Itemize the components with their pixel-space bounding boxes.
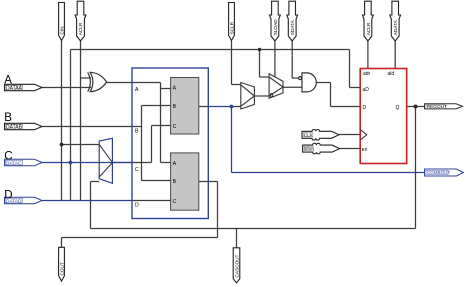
svg-text:ADATA: ADATA <box>393 19 398 35</box>
svg-text:adr: adr <box>363 71 371 77</box>
svg-text:COUT: COUT <box>59 262 64 275</box>
svg-text:C: C <box>173 199 177 205</box>
svg-text:D: D <box>135 203 139 209</box>
svg-text:ald: ald <box>388 71 395 77</box>
svg-text:ENA: ENA <box>304 146 313 151</box>
svg-text:SCLR: SCLR <box>229 21 234 34</box>
svg-text:C: C <box>173 124 177 130</box>
svg-text:CASCOUT: CASCOUT <box>234 254 239 277</box>
svg-text:en: en <box>362 147 368 153</box>
svg-text:A: A <box>173 161 177 167</box>
svg-text:D: D <box>363 105 367 111</box>
svg-text:DATAA: DATAA <box>6 85 23 91</box>
svg-text:CLK: CLK <box>304 132 313 137</box>
svg-text:ACLR: ACLR <box>78 22 83 35</box>
svg-text:ACLR: ACLR <box>366 22 371 35</box>
svg-text:B: B <box>135 129 139 135</box>
svg-text:SDATA: SDATA <box>290 19 295 35</box>
svg-text:A: A <box>173 86 177 92</box>
svg-text:C: C <box>135 167 139 173</box>
svg-text:CIN: CIN <box>59 26 64 34</box>
svg-text:B: B <box>4 112 12 124</box>
svg-text:DATAD: DATAD <box>6 198 22 204</box>
svg-text:DATAC: DATAC <box>6 160 22 166</box>
svg-text:aD: aD <box>363 87 370 93</box>
svg-text:DATAB: DATAB <box>6 124 23 130</box>
svg-text:Q: Q <box>396 105 400 111</box>
svg-text:B: B <box>173 179 177 185</box>
svg-text:B: B <box>173 104 177 110</box>
svg-text:SLOAD: SLOAD <box>273 19 278 36</box>
svg-text:A: A <box>135 87 139 93</box>
